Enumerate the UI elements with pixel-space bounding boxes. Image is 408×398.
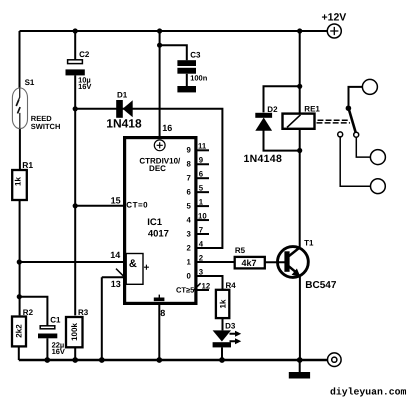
- svg-text:CT≥5: CT≥5: [176, 285, 194, 294]
- svg-text:12: 12: [202, 281, 211, 290]
- svg-text:D2: D2: [267, 105, 278, 114]
- svg-text:4: 4: [199, 239, 204, 248]
- svg-text:C2: C2: [79, 50, 90, 59]
- svg-text:C1: C1: [50, 316, 61, 325]
- svg-text:15: 15: [111, 196, 121, 206]
- svg-text:R1: R1: [22, 160, 33, 170]
- svg-text:diyleyuan.com: diyleyuan.com: [330, 387, 407, 398]
- svg-text:4k7: 4k7: [242, 258, 257, 268]
- svg-text:D3: D3: [225, 322, 236, 331]
- svg-text:2: 2: [199, 253, 204, 262]
- svg-text:5: 5: [199, 183, 204, 192]
- svg-text:1: 1: [186, 257, 191, 266]
- svg-text:1k: 1k: [14, 177, 23, 186]
- svg-text:4: 4: [186, 215, 191, 224]
- svg-text:6: 6: [199, 170, 204, 179]
- svg-text:16: 16: [162, 123, 172, 133]
- svg-text:14: 14: [110, 250, 120, 260]
- svg-text:8: 8: [160, 308, 165, 318]
- svg-text:R2: R2: [23, 308, 34, 317]
- svg-text:1k: 1k: [218, 299, 227, 308]
- svg-text:10: 10: [198, 211, 207, 220]
- svg-text:6: 6: [186, 188, 191, 197]
- svg-text:1N418: 1N418: [106, 117, 142, 131]
- svg-text:CT=0: CT=0: [126, 200, 148, 209]
- svg-text:5: 5: [186, 202, 191, 211]
- svg-text:4017: 4017: [148, 229, 169, 240]
- svg-text:11: 11: [198, 142, 207, 151]
- svg-text:C3: C3: [190, 51, 201, 60]
- svg-text:7: 7: [186, 174, 190, 183]
- svg-text:13: 13: [111, 279, 121, 289]
- svg-text:3: 3: [186, 229, 191, 238]
- svg-text:R3: R3: [78, 308, 89, 317]
- svg-text:S1: S1: [25, 78, 35, 87]
- svg-text:&: &: [129, 258, 137, 270]
- svg-text:R5: R5: [235, 246, 246, 255]
- svg-text:7: 7: [199, 225, 203, 234]
- svg-text:2k2: 2k2: [15, 324, 24, 338]
- svg-text:R4: R4: [226, 281, 237, 290]
- svg-text:1N4148: 1N4148: [244, 153, 283, 165]
- svg-text:RE1: RE1: [304, 105, 320, 114]
- svg-text:100n: 100n: [190, 73, 208, 82]
- svg-text:1: 1: [199, 197, 204, 206]
- svg-text:9: 9: [199, 156, 204, 165]
- svg-text:16V: 16V: [78, 82, 91, 91]
- svg-text:SWITCH: SWITCH: [31, 122, 61, 131]
- svg-text:16V: 16V: [52, 347, 65, 356]
- svg-text:2: 2: [186, 243, 191, 252]
- svg-text:100k: 100k: [70, 323, 79, 341]
- svg-text:BC547: BC547: [305, 280, 337, 291]
- svg-text:8: 8: [186, 160, 191, 169]
- svg-text:9: 9: [186, 146, 191, 155]
- svg-text:3: 3: [199, 267, 204, 276]
- svg-text:DEC: DEC: [149, 164, 166, 173]
- svg-text:T1: T1: [304, 239, 314, 248]
- svg-text:D1: D1: [117, 91, 128, 100]
- svg-text:+: +: [143, 263, 149, 274]
- svg-text:IC1: IC1: [147, 217, 163, 228]
- svg-text:0: 0: [186, 271, 191, 280]
- svg-text:+12V: +12V: [322, 11, 347, 23]
